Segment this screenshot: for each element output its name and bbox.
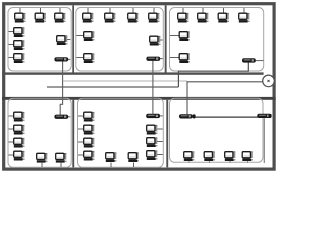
cable: top-right switch to backbone — [178, 62, 248, 87]
PC D4 — [9, 151, 25, 161]
backbone cable in corridor — [47, 86, 178, 88]
switch S4 (bottom-left room) — [54, 115, 70, 119]
PC C5 (top-right room, left wall) — [170, 31, 190, 41]
switch S3 (top-right room) — [242, 58, 264, 62]
PC C1 (top-right room, top row) — [178, 8, 189, 23]
room outline: bottom-left office — [8, 98, 71, 167]
switch S6 (bottom-right room, left) — [179, 114, 196, 118]
PC B1 (top-middle room, top row) — [83, 8, 94, 23]
PC C2 — [198, 8, 209, 23]
PC E2 — [78, 125, 95, 135]
PC C3 — [218, 8, 229, 23]
PC A5 — [9, 40, 25, 50]
PC D1 (bottom-left room, left wall) — [9, 112, 25, 122]
PC E9 — [128, 152, 139, 167]
room outline: top-left office — [8, 8, 71, 72]
PC D6 — [56, 153, 67, 167]
PC E4 — [78, 151, 95, 161]
PC B2 — [105, 8, 116, 23]
PC E3 — [78, 138, 95, 148]
PC A6 — [9, 53, 25, 63]
PC D5 (bottom-left room, bottom row) — [37, 153, 48, 167]
room outline: top-right office — [170, 8, 264, 72]
cable: top-middle switch down to bottom-middle switch — [152, 61, 154, 114]
wall: vertical between bottom-left and bottom-middle rooms — [72, 100, 74, 168]
PC B6 — [76, 53, 94, 63]
switch S1 (top-left room) — [54, 57, 70, 61]
PC F2 — [204, 151, 215, 162]
wall: vertical between top-middle and top-right rooms — [165, 5, 167, 72]
cable: faint horizontal corridor run — [63, 80, 187, 82]
switch S7 (bottom-right room, on right wall) — [257, 114, 271, 118]
cable: between bottom-right switches — [195, 116, 258, 118]
PC A2 — [35, 8, 46, 23]
PC E1 (bottom-middle room, left wall) — [78, 112, 95, 122]
PC D2 — [9, 125, 25, 135]
wall: vertical between bottom-middle and bottom-right rooms — [166, 100, 168, 168]
switch S2 (top-middle room) — [146, 57, 162, 61]
PC C4 — [239, 8, 250, 23]
PC D3 — [9, 138, 25, 148]
cable: corridor run to connector circle — [187, 81, 263, 83]
wall: first-floor / corridor divider — [2, 72, 264, 74]
PC B3 — [128, 8, 139, 23]
PC A1 (top-left room, top row) — [15, 8, 26, 23]
connector circle X (WAN tap) — [263, 75, 275, 87]
PC F1 (bottom-right room, bottom row) — [184, 151, 195, 162]
PC A7 (top-left room, right wall) — [57, 35, 71, 45]
PC C6 — [170, 53, 190, 63]
wall: vertical between top-left and top-middle rooms — [72, 5, 74, 72]
cable: down from right-wall switch — [263, 118, 265, 163]
switch S5 (bottom-middle room) — [146, 114, 163, 118]
PC B5 (top-middle room, left wall) — [76, 31, 94, 41]
PC A4 (top-left room, left wall) — [9, 27, 25, 37]
PC E5 (bottom-middle room, right wall) — [147, 125, 163, 135]
PC B4 — [149, 8, 160, 23]
building outer wall — [4, 4, 274, 169]
wall: corridor / ground-floor divider (thick) — [2, 97, 276, 100]
PC A3 — [55, 8, 66, 23]
PC B7 (top-middle room, right wall) — [150, 36, 163, 46]
room outline: bottom-middle office — [78, 98, 164, 167]
PC E6 — [147, 137, 163, 147]
cable: drop to bottom-right switch — [186, 81, 188, 114]
PC F4 — [242, 151, 253, 162]
PC F3 — [225, 151, 236, 162]
PC E8 (bottom-middle room, bottom row) — [106, 152, 117, 167]
room outline: bottom-right office — [170, 98, 264, 162]
room outline: top-middle office — [76, 8, 164, 72]
PC E7 — [147, 150, 163, 160]
cable: top-left switch down to bottom-left switch — [60, 61, 62, 114]
